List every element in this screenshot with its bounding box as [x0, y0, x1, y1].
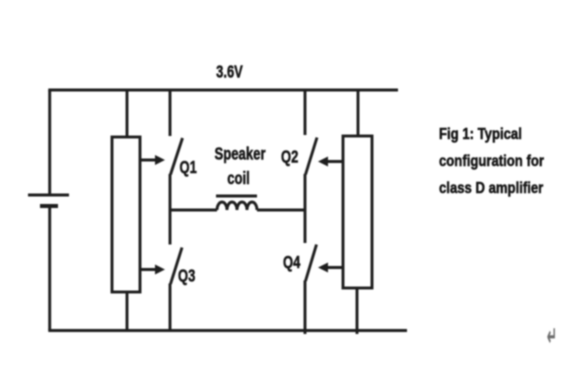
switch Q4 blade — [306, 245, 317, 282]
wire battery top — [48, 90, 51, 194]
arrow gate Q1 — [140, 159, 157, 162]
speaker coil underline — [216, 195, 257, 198]
svg-text:coil: coil — [227, 169, 250, 188]
wire Q4 source — [304, 281, 307, 335]
wire Q3 source — [169, 284, 172, 331]
wire speaker left — [170, 209, 217, 212]
wire right driver to top rail — [357, 90, 360, 136]
wire Q3 drain — [169, 210, 172, 245]
battery BT1 positive plate — [28, 194, 69, 197]
svg-text:Q3: Q3 — [178, 267, 196, 287]
switch Q2 blade — [306, 138, 318, 175]
wire Q2 source — [304, 174, 307, 210]
switch Q1 blade — [171, 138, 183, 175]
wire Q1 source — [169, 174, 172, 210]
battery BT1 negative plate — [40, 204, 58, 208]
svg-text:3.6V: 3.6V — [216, 63, 243, 83]
svg-text:Q2: Q2 — [281, 148, 299, 168]
switch Q3 blade — [171, 248, 183, 285]
wire right driver to bottom rail — [356, 288, 359, 334]
figure caption — [439, 121, 578, 202]
wire Q2 drain — [304, 90, 307, 135]
wire left driver to top rail — [126, 90, 129, 137]
arrow gate Q4 — [326, 266, 343, 269]
wire Q4 drain — [304, 210, 307, 243]
wire battery bottom — [48, 206, 51, 331]
inductor L1 speaker coil — [217, 202, 257, 210]
driver block left — [112, 137, 140, 292]
wire speaker right — [257, 209, 305, 212]
wire Q1 drain — [169, 90, 172, 136]
arrow gate Q2 — [326, 160, 343, 163]
svg-text:Speaker: Speaker — [214, 145, 265, 164]
svg-text:Q1: Q1 — [180, 158, 198, 178]
svg-text:Q4: Q4 — [283, 253, 301, 273]
svg-text:↵: ↵ — [547, 323, 557, 351]
wire bottom rail — [48, 329, 407, 332]
arrow gate Q3 — [140, 268, 157, 271]
wire top rail 3.6V — [48, 89, 398, 92]
driver block right — [343, 136, 372, 288]
wire left driver to bottom rail — [126, 292, 129, 331]
